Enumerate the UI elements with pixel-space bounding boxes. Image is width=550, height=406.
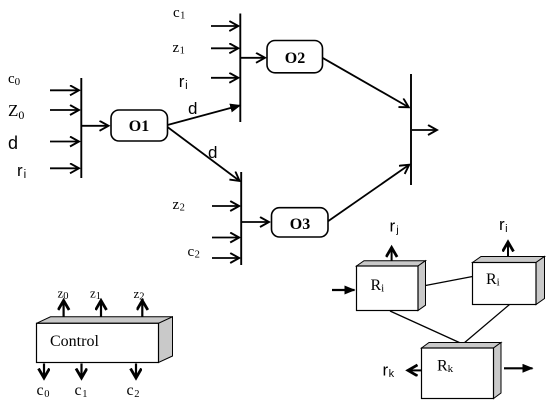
- transition bar T2: [239, 14, 241, 123]
- svg-text:d: d: [8, 133, 18, 153]
- svg-text:O2: O2: [285, 50, 305, 67]
- arrow c2 down from control: [135, 364, 137, 378]
- svg-text:ri: ri: [17, 161, 26, 181]
- svg-text:c1: c1: [75, 382, 88, 400]
- arrow z1 into T2: [211, 47, 238, 49]
- svg-text:c1: c1: [173, 5, 185, 22]
- resource box R3 front face: [422, 348, 494, 399]
- arrow T3 to O3: [242, 221, 269, 223]
- resource box R2 top face: [473, 257, 545, 263]
- arrow z0 up from control: [62, 301, 64, 317]
- arrow Z0 into T1: [50, 109, 79, 111]
- arrow d into T1: [50, 141, 79, 143]
- arrow T1 to O1: [82, 125, 108, 127]
- arrow ri up from R2: [507, 243, 509, 257]
- arrow rj up from R1: [391, 248, 393, 261]
- arrow O1 to T2 (d): [168, 105, 241, 125]
- arrow O3 to T4: [328, 165, 409, 221]
- arrow z1 up from control: [100, 301, 102, 317]
- arrow ri into T1: [50, 167, 79, 169]
- svg-text:z2: z2: [173, 197, 185, 214]
- arrow c0 into T1: [50, 89, 79, 91]
- svg-text:c0: c0: [8, 71, 21, 88]
- arrow c1 down from control: [80, 364, 82, 378]
- svg-text:z1: z1: [173, 40, 185, 57]
- link R2 to R3: [464, 305, 510, 344]
- arrow out right of R3: [504, 367, 533, 369]
- resource box R2 front face: [473, 263, 537, 305]
- svg-text:c2: c2: [127, 382, 140, 400]
- svg-text:z1: z1: [90, 286, 101, 303]
- arrow z2 into T3: [212, 205, 239, 207]
- transition bar T4: [410, 74, 412, 185]
- resource box R2 right face: [536, 257, 545, 305]
- svg-text:z2: z2: [134, 286, 145, 303]
- svg-text:Control: Control: [50, 333, 99, 350]
- control box 3D top face: [37, 317, 173, 324]
- operation O1: [111, 110, 168, 141]
- link R1 to R3: [390, 311, 462, 344]
- svg-text:z0: z0: [58, 286, 69, 303]
- operation O3: [272, 208, 329, 237]
- control box 3D right face: [159, 317, 173, 363]
- arrow c2 into T3: [212, 257, 239, 259]
- resource box R1 front face: [357, 266, 419, 311]
- svg-text:Z0: Z0: [8, 101, 24, 122]
- resource box R1 top face: [357, 261, 426, 266]
- arrow c0 down from control: [43, 364, 45, 378]
- resource box R3 top face: [422, 343, 502, 349]
- transition bar T1: [80, 78, 82, 178]
- arrow into T3 (middle): [212, 237, 239, 239]
- svg-text:ri: ri: [179, 72, 188, 92]
- arrow z2 up from control: [141, 301, 143, 317]
- svg-text:ri: ri: [499, 215, 508, 235]
- svg-text:O3: O3: [290, 216, 310, 233]
- svg-text:rk: rk: [383, 360, 395, 380]
- svg-text:d: d: [188, 99, 197, 118]
- operation O2: [267, 41, 323, 73]
- arrow T2 to O2: [241, 57, 265, 59]
- resource box R3 right face: [494, 343, 502, 399]
- arrow O1 to T3 (d): [168, 127, 240, 181]
- arrow ri into T2: [211, 77, 238, 79]
- svg-text:c0: c0: [37, 382, 50, 400]
- link R1 to R2: [426, 277, 473, 286]
- arrow rk out left of R3: [409, 369, 422, 371]
- resource box R1 right face: [418, 261, 426, 311]
- transition bar T3: [240, 172, 242, 265]
- arrow T4 output: [412, 129, 437, 131]
- arrow c1 into T2: [211, 25, 238, 27]
- svg-text:rj: rj: [390, 217, 399, 237]
- svg-text:c2: c2: [188, 244, 200, 260]
- arrow into R1: [332, 289, 355, 291]
- arrow O2 to T4: [323, 58, 409, 107]
- control box front face: [37, 323, 159, 362]
- svg-text:O1: O1: [129, 118, 149, 135]
